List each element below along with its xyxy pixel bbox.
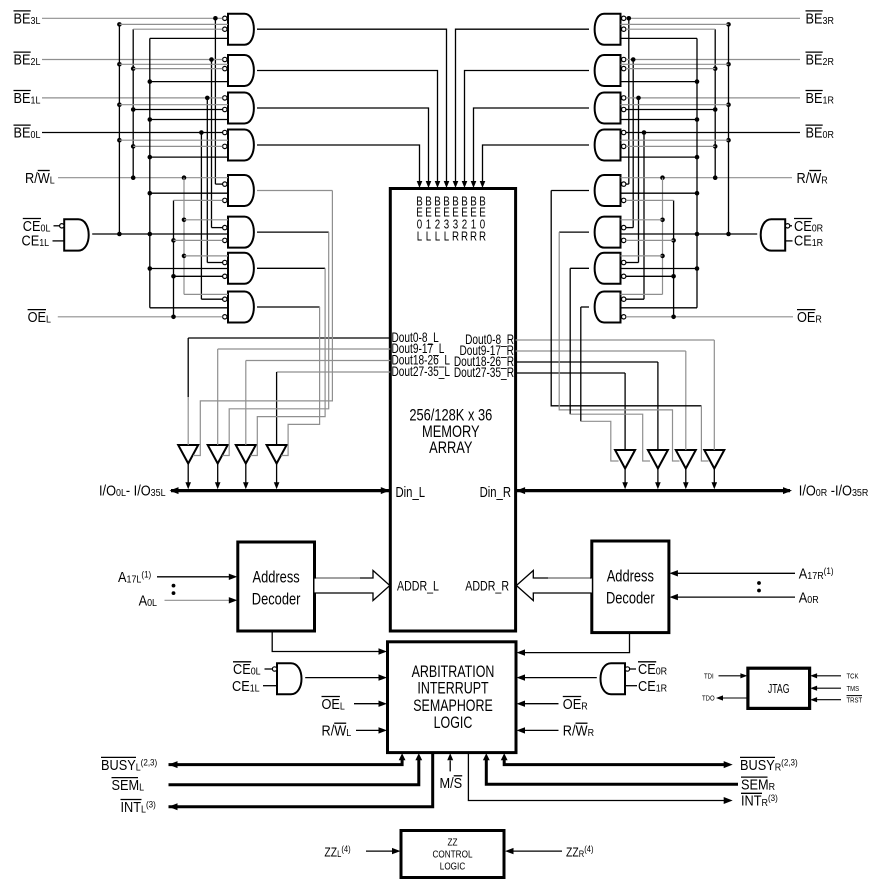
wire gate G4R output to memory byte-enable arrow 8: [483, 145, 590, 182]
svg-text:ADDR_L: ADDR_L: [397, 578, 439, 594]
wire BE1L net: [42, 97, 223, 99]
and-gate G3R (BE1R write enable): [595, 93, 621, 124]
hollow arrow ADDR_L (decoder to memory): [315, 571, 390, 601]
svg-text:SEMAPHORE: SEMAPHORE: [413, 697, 493, 715]
left I/O bus: [171, 489, 390, 492]
wire TDI to JTAG: [719, 675, 742, 677]
wire buffer output to left I/O bus: [245, 464, 247, 484]
wire OER to arbitration: [524, 703, 559, 705]
arbitration interrupt semaphore logic box: [388, 642, 517, 753]
JTAG box: [748, 668, 810, 708]
svg-text:LOGIC: LOGIC: [434, 714, 473, 732]
and-gate G4 (BE0L write enable): [228, 130, 254, 161]
bubble CE0R arb input: [625, 667, 629, 671]
and-gate U3 (CE0L/CE1L to arbitration): [277, 663, 302, 694]
svg-text:Din_L: Din_L: [396, 484, 426, 501]
wire OER net: [626, 316, 793, 318]
wire OEL to arbitration: [354, 703, 380, 705]
svg-text:M/S: M/S: [440, 774, 463, 791]
wire gate G1 output to memory byte-enable arrow 4: [257, 29, 447, 182]
tri-state output buffer left 4: [267, 445, 287, 464]
wire BUSYR bus: [504, 760, 725, 765]
wire M/S input: [449, 761, 451, 772]
tri-state output buffer left 1: [178, 445, 198, 464]
wire TDO from JTAG: [722, 697, 748, 699]
tri-state output buffer right 3: [676, 450, 696, 469]
svg-text:INTERRUPT: INTERRUPT: [417, 680, 488, 698]
svg-text:L: L: [426, 230, 431, 243]
wire ZZR to ZZ box: [512, 850, 562, 852]
svg-text:TDI: TDI: [704, 673, 714, 681]
svg-text:MEMORY: MEMORY: [422, 423, 480, 441]
ZZ control logic box: [401, 831, 504, 878]
wire read-enable G6 output to buffer 2: [257, 231, 329, 233]
wire buffer output to right I/O bus: [685, 469, 687, 484]
and-gate G6R (BE2R read enable): [595, 217, 621, 248]
wire TRST to JTAG: [816, 699, 841, 701]
wire read-enable G7R output to buffer: [570, 267, 589, 269]
wire SEMR bus: [486, 760, 738, 785]
wire buffer output to right I/O bus: [713, 469, 715, 484]
and-gate G3 (BE1L write enable): [228, 93, 254, 124]
wire gate G3 output to memory byte-enable arrow 2: [257, 108, 429, 182]
svg-text:Decoder: Decoder: [606, 590, 655, 608]
wire CE right net: [621, 233, 758, 235]
svg-text:R: R: [479, 230, 486, 243]
wire Dout18-26_L to buffer: [246, 360, 390, 362]
wire buffer output to left I/O bus: [217, 464, 219, 484]
ellipsis dots between A17L and A0L: [172, 584, 176, 588]
svg-text:TMS: TMS: [847, 685, 860, 693]
svg-text:ZZ: ZZ: [447, 835, 457, 847]
svg-text:R: R: [470, 230, 477, 243]
svg-text:R: R: [452, 230, 459, 243]
svg-text:Address: Address: [253, 569, 300, 587]
svg-text:Address: Address: [607, 568, 654, 586]
tri-state output buffer right 2: [648, 450, 668, 469]
wire read-enable G5 output to buffer 1: [257, 190, 332, 192]
wire CE left net: [92, 233, 228, 235]
svg-text:TDO: TDO: [702, 695, 715, 703]
svg-text:L: L: [435, 230, 440, 243]
wire read-enable G7 output to buffer 3: [257, 267, 325, 269]
wire R/WR to arbitration: [524, 729, 559, 731]
and-gate G1 (BE3L write enable): [228, 14, 254, 45]
wire SEML bus: [169, 760, 419, 785]
wire R/WR net: [621, 177, 793, 179]
hollow arrow ADDR_R (decoder to memory): [516, 571, 591, 601]
wire left decoder to arbitration: [272, 631, 380, 652]
and-gate U1 (CE0L/CE1L chip enable, top left): [64, 219, 89, 250]
wire R/WL net: [58, 177, 228, 179]
and-gate G4R (BE0R write enable): [595, 130, 621, 161]
memory array box (256/128K x 36 MEMORY ARRAY): [390, 189, 515, 632]
and-gate G2 (BE2L write enable): [228, 55, 254, 86]
address decoder box right: [592, 541, 669, 633]
right I/O bus: [516, 489, 790, 492]
wire TCK to JTAG: [816, 675, 841, 677]
wire gate G3R output to memory byte-enable arrow 7: [474, 108, 590, 182]
wire Dout9-17_R to buffer: [516, 350, 686, 352]
svg-text:ADDR_R: ADDR_R: [465, 578, 509, 594]
svg-text:Dout27-35_L: Dout27-35_L: [392, 364, 451, 380]
wire buffer output to right I/O bus: [657, 469, 659, 484]
wire gate G1R output to memory byte-enable arrow 5: [456, 29, 590, 182]
bubble CE0R input: [785, 224, 789, 228]
and-gate G8R (BE0R read enable): [595, 292, 621, 323]
wire Dout9-17_L to buffer: [218, 348, 391, 350]
wire read-enable G5R output to buffer: [551, 190, 589, 192]
svg-text:ARRAY: ARRAY: [429, 440, 472, 458]
and-gate G8 (BE0L read enable): [228, 292, 254, 323]
svg-text:Din_R: Din_R: [480, 484, 511, 501]
wire left CE gate to arbitration: [305, 677, 380, 679]
svg-text:Decoder: Decoder: [252, 591, 301, 609]
wire Dout0-8_R to buffer: [516, 339, 715, 341]
svg-text:256/128K x 36: 256/128K x 36: [409, 407, 492, 425]
wire read-enable G8R output to buffer: [581, 306, 589, 308]
ellipsis dots between A17R and A0R: [757, 581, 761, 585]
wire read-enable G8 output to buffer 4: [257, 306, 320, 308]
and-gate G6 (BE2L read enable): [228, 217, 254, 248]
address decoder box left: [238, 542, 315, 631]
svg-text:JTAG: JTAG: [768, 683, 790, 697]
wire read-enable G6R output to buffer: [559, 231, 589, 233]
and-gate G2R (BE2R write enable): [595, 55, 621, 86]
input inversion bubbles left gate column: [223, 16, 227, 20]
svg-text:L: L: [444, 230, 449, 243]
wire Dout27-35_L to buffer: [277, 371, 391, 373]
and-gate G5 (BE3L read enable): [228, 175, 254, 206]
wire Dout27-35_R to buffer: [516, 372, 626, 374]
wire gate G4 output to memory byte-enable arrow 1: [257, 145, 420, 182]
wire TMS to JTAG: [816, 687, 841, 689]
tri-state output buffer right 4: [704, 450, 724, 469]
wire BE0R net: [626, 132, 800, 134]
wire buffer output to left I/O bus: [276, 464, 278, 484]
and-gate G1R (BE3R write enable): [595, 14, 621, 45]
and-gate U4 (CE0R/CE1R to arbitration): [601, 663, 626, 694]
and-gate U2 (CE0R/CE1R chip enable, top right): [761, 219, 786, 250]
and-gate G7R (BE1R read enable): [595, 253, 621, 284]
wire Dout18-26_R to buffer: [516, 361, 658, 363]
tri-state output buffer left 2: [208, 445, 228, 464]
wire INTR: [468, 753, 725, 801]
wire BE1R net: [626, 97, 800, 99]
svg-text:L: L: [417, 230, 422, 243]
svg-text:LOGIC: LOGIC: [440, 859, 466, 871]
and-gate G5R (BE3R read enable): [595, 175, 621, 206]
wire A17L to decoder: [157, 576, 231, 578]
svg-text:R: R: [461, 230, 468, 243]
svg-text:TRST: TRST: [847, 697, 863, 705]
wire BUSYL bus: [169, 760, 403, 765]
wire BE3R net: [626, 17, 800, 19]
tri-state output buffer right 1: [615, 450, 635, 469]
wire buffer output to right I/O bus: [624, 469, 626, 484]
bubble CE0L input: [60, 224, 64, 228]
wire right CE gate to arbitration: [524, 677, 597, 679]
wire right decoder to arbitration: [524, 633, 630, 653]
wire BE3L net: [42, 17, 223, 19]
svg-text:Dout27-35_R: Dout27-35_R: [454, 365, 515, 381]
wire BE2R net: [626, 59, 800, 61]
input inversion bubbles right gate column: [622, 16, 626, 20]
wire A0R to decoder: [677, 596, 796, 598]
wire R/WL to arbitration: [356, 729, 380, 731]
wire BE0L net: [42, 132, 223, 134]
wire gate G2R output to memory byte-enable arrow 6: [465, 71, 590, 183]
wire OEL net: [58, 316, 223, 318]
wire gate G2 output to memory byte-enable arrow 3: [257, 71, 438, 183]
wire BE2L net: [42, 59, 223, 61]
and-gate G7 (BE1L read enable): [228, 253, 254, 284]
wire buffer output to left I/O bus: [187, 464, 189, 484]
wire INTL bus: [169, 753, 433, 807]
wire A0L to decoder: [165, 599, 231, 601]
wire A17R to decoder: [677, 572, 796, 574]
bubble CE0L arb input: [272, 667, 276, 671]
wire Dout0-8_L to buffer: [188, 337, 390, 339]
svg-text:ARBITRATION: ARBITRATION: [412, 663, 495, 681]
tri-state output buffer left 3: [236, 445, 256, 464]
wire ZZL to ZZ box: [366, 850, 394, 852]
svg-text:TCK: TCK: [847, 673, 859, 681]
svg-text:CONTROL: CONTROL: [432, 847, 472, 859]
